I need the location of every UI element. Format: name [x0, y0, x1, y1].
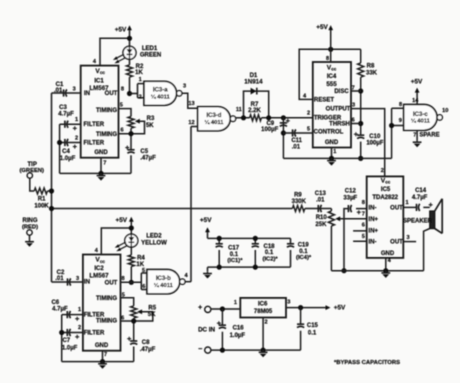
svg-text:SPARE: SPARE	[419, 133, 439, 139]
svg-text:IN+: IN+	[369, 217, 379, 223]
svg-text:8: 8	[399, 102, 402, 108]
svg-text:14: 14	[412, 98, 419, 104]
svg-text:5: 5	[120, 103, 123, 109]
svg-text:4.7µF: 4.7µF	[52, 306, 68, 312]
svg-text:−: −	[198, 346, 202, 353]
svg-text:IN: IN	[84, 279, 90, 285]
svg-text:1N914: 1N914	[244, 79, 263, 86]
svg-text:OUTPUT: OUTPUT	[326, 107, 351, 113]
svg-text:IC1: IC1	[94, 79, 104, 85]
svg-text:LED1: LED1	[142, 46, 158, 52]
svg-text:GND: GND	[381, 251, 395, 257]
svg-text:+5V: +5V	[116, 217, 128, 224]
svg-text:LED2: LED2	[146, 233, 162, 239]
svg-text:+5V: +5V	[115, 26, 127, 33]
svg-text:1K: 1K	[136, 262, 144, 268]
svg-text:IC2: IC2	[94, 266, 104, 272]
svg-text:GND: GND	[95, 343, 109, 349]
svg-text:+5V: +5V	[200, 217, 212, 224]
svg-text:C18: C18	[263, 244, 275, 250]
svg-text:C17: C17	[228, 246, 240, 252]
svg-text:1: 1	[139, 77, 142, 83]
svg-text:+5V: +5V	[334, 304, 346, 311]
svg-text:OUT: OUT	[105, 280, 118, 286]
svg-text:2: 2	[381, 168, 384, 174]
svg-text:1: 1	[78, 307, 81, 313]
svg-text:5K: 5K	[146, 123, 154, 129]
svg-text:C2: C2	[57, 270, 65, 276]
svg-text:8: 8	[121, 87, 124, 93]
svg-text:7: 7	[413, 132, 416, 138]
svg-text:.01: .01	[292, 145, 301, 151]
svg-text:.01: .01	[55, 276, 64, 282]
svg-text:C8: C8	[142, 340, 150, 346]
svg-text:GND: GND	[325, 140, 339, 146]
svg-text:0.1: 0.1	[265, 250, 274, 256]
svg-text:FILTER: FILTER	[84, 140, 105, 146]
svg-text:.47µF: .47µF	[140, 155, 156, 161]
svg-text:100K: 100K	[34, 203, 49, 209]
svg-text:C15: C15	[307, 323, 319, 329]
svg-text:6: 6	[120, 128, 123, 134]
svg-text:(GREEN): (GREEN)	[19, 168, 44, 174]
svg-text:¼ 4011: ¼ 4011	[154, 282, 174, 289]
svg-text:8: 8	[362, 200, 365, 206]
svg-text:FILTER: FILTER	[84, 122, 105, 128]
svg-text:cc: cc	[385, 180, 391, 185]
svg-text:C16: C16	[233, 325, 245, 331]
svg-text:R4: R4	[137, 256, 145, 262]
svg-text:3: 3	[352, 102, 355, 108]
svg-text:7: 7	[104, 352, 107, 358]
svg-text:.47µF: .47µF	[140, 347, 156, 353]
svg-text:5K: 5K	[148, 312, 156, 318]
svg-text:+5V: +5V	[316, 24, 328, 31]
svg-text:2: 2	[75, 135, 78, 141]
svg-text:33µF: 33µF	[343, 195, 357, 201]
svg-text:6: 6	[362, 223, 365, 229]
svg-text:4.7µF: 4.7µF	[412, 195, 428, 201]
svg-text:SPEAKER: SPEAKER	[403, 218, 433, 224]
svg-text:C19: C19	[298, 242, 310, 248]
svg-text:CONTROL: CONTROL	[314, 129, 344, 135]
svg-text:1: 1	[333, 149, 336, 155]
svg-text:TIMING: TIMING	[96, 296, 117, 302]
svg-text:R3: R3	[147, 116, 155, 122]
svg-text:IN-: IN-	[369, 206, 377, 212]
svg-text:R9: R9	[294, 192, 302, 198]
svg-text:330K: 330K	[292, 199, 307, 205]
svg-text:C11: C11	[291, 138, 302, 144]
svg-text:C3: C3	[59, 105, 67, 111]
svg-text:R2: R2	[136, 64, 144, 70]
svg-text:C6: C6	[51, 300, 59, 306]
svg-text:FILTER: FILTER	[84, 331, 105, 337]
svg-text:5: 5	[307, 126, 310, 132]
svg-text:IN-: IN-	[369, 240, 377, 246]
svg-text:+5V: +5V	[411, 79, 423, 86]
svg-text:cc: cc	[331, 67, 337, 72]
svg-text:6: 6	[121, 315, 124, 321]
svg-text:2: 2	[264, 319, 267, 325]
svg-text:3: 3	[76, 276, 79, 282]
svg-text:0.1: 0.1	[299, 249, 308, 255]
svg-text:TIMING: TIMING	[96, 319, 117, 325]
svg-text:THRSH: THRSH	[329, 122, 350, 128]
svg-text:5: 5	[362, 234, 365, 240]
svg-text:1.0µF: 1.0µF	[62, 346, 78, 352]
svg-text:3: 3	[183, 84, 186, 90]
svg-text:(IC4)*: (IC4)*	[296, 255, 312, 261]
svg-text:12: 12	[188, 120, 194, 126]
svg-text:YELLOW: YELLOW	[141, 241, 167, 247]
svg-text:TIP: TIP	[28, 162, 37, 168]
svg-text:IN: IN	[84, 91, 90, 97]
svg-text:C7: C7	[62, 338, 70, 344]
svg-text:2.2K: 2.2K	[248, 108, 261, 114]
svg-text:1: 1	[405, 200, 408, 206]
svg-text:C14: C14	[415, 188, 427, 194]
svg-text:IC3-c: IC3-c	[413, 112, 428, 118]
svg-text:2: 2	[307, 110, 310, 116]
svg-text:R5: R5	[148, 305, 156, 311]
svg-text:.01: .01	[54, 88, 63, 94]
svg-text:IC5: IC5	[381, 187, 391, 193]
svg-text:R8: R8	[367, 64, 375, 70]
svg-text:(IC2)*: (IC2)*	[263, 256, 279, 262]
svg-text:¼ 4011: ¼ 4011	[411, 118, 431, 125]
svg-text:OUT: OUT	[390, 239, 403, 245]
svg-text:7: 7	[103, 160, 106, 166]
svg-text:¼ 4011: ¼ 4011	[204, 119, 224, 126]
svg-text:10: 10	[442, 108, 448, 114]
svg-text:GREEN: GREEN	[140, 52, 161, 58]
svg-text:GND: GND	[94, 150, 108, 156]
svg-text:7: 7	[352, 85, 355, 91]
svg-text:RESET: RESET	[314, 98, 334, 104]
svg-text:7: 7	[362, 211, 365, 217]
svg-text:cc: cc	[100, 259, 106, 264]
svg-text:.01: .01	[316, 197, 325, 203]
svg-text:TIMING: TIMING	[96, 108, 117, 114]
svg-text:8: 8	[326, 56, 329, 62]
svg-text:C5: C5	[140, 149, 148, 155]
svg-text:FILTER: FILTER	[84, 312, 105, 318]
svg-text:0.1: 0.1	[308, 330, 317, 336]
svg-text:0.1: 0.1	[230, 252, 239, 258]
svg-text:8: 8	[121, 276, 124, 282]
svg-text:78M05: 78M05	[254, 309, 273, 315]
svg-text:4.7µF: 4.7µF	[58, 111, 74, 117]
svg-text:IC3-a: IC3-a	[153, 88, 168, 94]
svg-text:1.0µF: 1.0µF	[60, 156, 76, 162]
svg-text:¼ 4011: ¼ 4011	[151, 94, 171, 101]
svg-text:9: 9	[399, 118, 402, 124]
svg-text:25K: 25K	[315, 222, 327, 228]
svg-text:IC3-b: IC3-b	[156, 276, 171, 282]
svg-text:IC6: IC6	[258, 301, 268, 307]
svg-text:13: 13	[188, 101, 194, 107]
svg-text:DISC: DISC	[334, 89, 349, 95]
svg-text:(IC1)*: (IC1)*	[227, 258, 243, 264]
svg-text:C10: C10	[369, 134, 381, 140]
svg-text:5: 5	[142, 268, 145, 274]
svg-text:100µF: 100µF	[366, 140, 383, 146]
svg-text:C9: C9	[266, 121, 274, 127]
svg-text:OUT: OUT	[105, 91, 118, 97]
svg-text:RING: RING	[23, 218, 38, 224]
svg-text:IN+: IN+	[369, 228, 379, 234]
svg-text:2: 2	[78, 325, 81, 331]
svg-text:IC4: IC4	[327, 74, 337, 80]
svg-text:R1: R1	[38, 197, 46, 203]
svg-text:555: 555	[326, 81, 337, 88]
svg-text:(RED): (RED)	[22, 225, 38, 231]
svg-text:TIMING: TIMING	[96, 132, 117, 138]
svg-text:33K: 33K	[366, 70, 378, 76]
svg-text:R10: R10	[316, 215, 328, 221]
svg-text:1K: 1K	[135, 70, 143, 76]
svg-text:C4: C4	[62, 149, 70, 155]
svg-text:1: 1	[234, 300, 237, 306]
svg-text:IC3-d: IC3-d	[206, 113, 221, 119]
svg-text:5: 5	[122, 292, 125, 298]
svg-text:6: 6	[142, 284, 145, 290]
svg-text:C12: C12	[345, 188, 357, 194]
svg-text:11: 11	[236, 107, 242, 113]
svg-text:3: 3	[73, 87, 76, 93]
svg-text:3: 3	[287, 299, 290, 305]
svg-text:1: 1	[75, 117, 78, 123]
svg-text:C13: C13	[315, 191, 327, 197]
svg-text:LM567: LM567	[89, 272, 109, 279]
svg-text:6: 6	[352, 117, 355, 123]
svg-text:*BYPASS CAPACITORS: *BYPASS CAPACITORS	[334, 360, 400, 366]
svg-text:2: 2	[139, 95, 142, 101]
svg-text:DC IN: DC IN	[198, 326, 215, 333]
svg-text:TDA2822: TDA2822	[372, 195, 398, 201]
svg-text:+: +	[198, 305, 202, 312]
svg-text:3: 3	[406, 235, 409, 241]
svg-text:100µF: 100µF	[261, 127, 278, 133]
svg-text:1.0µF: 1.0µF	[230, 333, 246, 339]
svg-text:OUT: OUT	[390, 205, 403, 211]
svg-text:cc: cc	[100, 70, 106, 75]
